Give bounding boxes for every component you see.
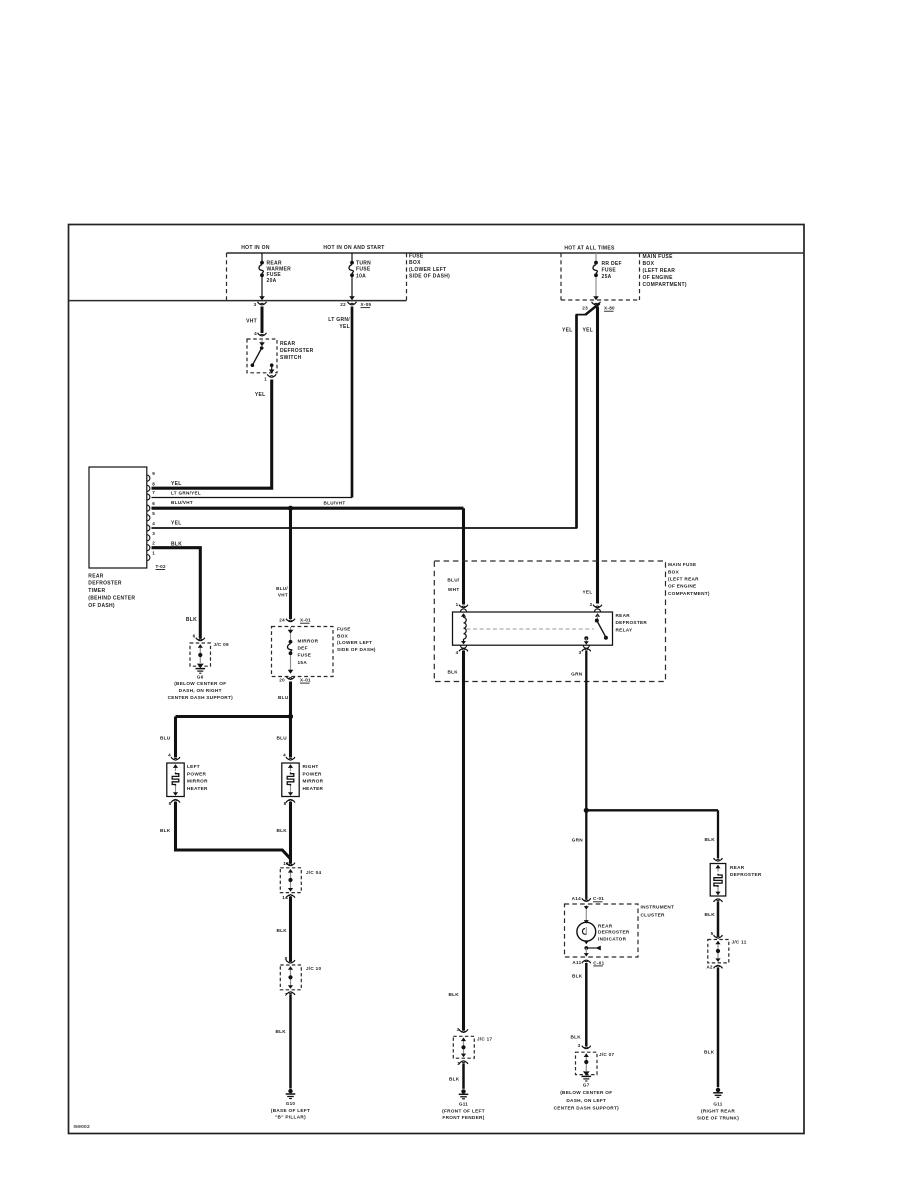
label BLU (below fuse 20) — [278, 695, 289, 700]
timer U1 name label — [88, 573, 135, 609]
svg-text:BOX: BOX — [337, 633, 349, 638]
svg-text:(LOWER LEFT: (LOWER LEFT — [409, 267, 446, 273]
wire BLU/WHT (junction to fuse 24) — [289, 508, 292, 619]
svg-text:22: 22 — [340, 302, 346, 307]
junction connector J/C 11 — [708, 940, 729, 963]
svg-text:X-80: X-80 — [604, 306, 615, 311]
svg-text:REAR: REAR — [730, 865, 745, 870]
heater H1 LEFT POWER MIRROR HEATER — [167, 763, 184, 797]
svg-text:5: 5 — [711, 931, 714, 936]
label J/C 11 — [732, 940, 747, 945]
svg-text:BLU/: BLU/ — [447, 578, 460, 583]
svg-text:OF DASH): OF DASH) — [88, 603, 115, 609]
svg-text:C-01: C-01 — [593, 960, 604, 965]
svg-text:MAIN FUSE: MAIN FUSE — [668, 562, 696, 567]
svg-text:BLU: BLU — [276, 736, 287, 741]
svg-text:I59002: I59002 — [74, 1124, 91, 1130]
label BLU/WHT (timer pin 6) — [171, 500, 193, 505]
svg-text:6: 6 — [193, 634, 196, 639]
heater H2 RIGHT POWER MIRROR HEATER — [282, 763, 299, 797]
connector pin 3 (fuse box output) — [254, 302, 267, 307]
svg-text:(RIGHT REAR: (RIGHT REAR — [701, 1109, 735, 1114]
hot bus bottom line — [69, 300, 407, 302]
svg-text:BLK: BLK — [275, 1029, 286, 1034]
svg-text:GRN: GRN — [571, 671, 583, 676]
svg-text:BLK: BLK — [171, 541, 182, 547]
connector J/C 17 pin 3 — [457, 1027, 468, 1032]
svg-text:C-01: C-01 — [593, 896, 604, 901]
connector relay pin 2 — [590, 602, 602, 608]
fuse F1 REAR WARMER FUSE 20A — [259, 253, 265, 300]
label BLU/WHT (above fuse 24) — [276, 586, 288, 598]
svg-text:REAR: REAR — [280, 341, 295, 347]
junction node BLU/WHT branch — [288, 506, 293, 511]
label BLK (above right G11) — [704, 1050, 715, 1055]
svg-text:CLUSTER: CLUSTER — [641, 912, 666, 917]
label J/C 09 — [214, 642, 229, 647]
connector J/C 09 pin 6 — [193, 634, 205, 641]
wire BLK (cluster to J/C 07) — [585, 963, 588, 1046]
wire YEL (connector 23 to timer pin 4) — [152, 303, 600, 528]
svg-text:(BELOW CENTER OF: (BELOW CENTER OF — [560, 1090, 612, 1095]
svg-text:BLK: BLK — [704, 837, 715, 842]
fuse box (lower) location text — [337, 627, 376, 652]
svg-text:G11: G11 — [459, 1102, 468, 1107]
connector switch pin 1 — [264, 374, 276, 381]
svg-text:SIDE OF DASH): SIDE OF DASH) — [337, 647, 376, 652]
connector relay pin 3 — [579, 648, 591, 655]
switch S1 REAR DEFROSTER SWITCH box — [247, 339, 277, 373]
ground G11 (left) label — [442, 1102, 485, 1120]
connector rear defroster bottom — [714, 899, 723, 902]
ground G7 label — [554, 1083, 620, 1111]
ground G10 symbol — [286, 1089, 296, 1099]
svg-text:HOT AT ALL TIMES: HOT AT ALL TIMES — [564, 246, 615, 252]
svg-text:8: 8 — [169, 801, 172, 806]
connector relay pin 4 — [456, 648, 468, 655]
heater H2 name label — [303, 764, 324, 791]
label GRN (below junction) — [572, 838, 584, 843]
fuse F1 value label — [267, 260, 292, 284]
svg-text:1: 1 — [456, 602, 459, 607]
svg-text:FUSE: FUSE — [409, 253, 424, 259]
svg-text:INSTRUMENT: INSTRUMENT — [641, 904, 675, 909]
svg-text:9: 9 — [152, 471, 155, 476]
svg-text:BLK: BLK — [160, 828, 171, 833]
wire BLU junction row — [176, 715, 291, 718]
label J/C 07 — [599, 1052, 614, 1057]
heater H1 name label — [187, 764, 208, 791]
junction connector J/C 07 — [576, 1052, 598, 1075]
connector switch pin 4 — [254, 331, 266, 336]
connector pin 23 X-80 — [582, 302, 615, 311]
svg-text:BLK: BLK — [186, 617, 197, 623]
svg-text:DEFROSTER: DEFROSTER — [730, 872, 762, 877]
svg-text:(LEFT REAR: (LEFT REAR — [643, 268, 676, 274]
svg-text:A11: A11 — [572, 960, 581, 965]
connector J/C 07 pin 3 — [578, 1043, 591, 1049]
connector cluster pin A11 C-01 — [572, 960, 604, 966]
svg-text:LT GRN/: LT GRN/ — [328, 317, 350, 323]
svg-text:HOT IN ON AND START: HOT IN ON AND START — [323, 245, 384, 251]
svg-text:"B" PILLAR): "B" PILLAR) — [275, 1115, 306, 1120]
svg-text:COMPARTMENT): COMPARTMENT) — [668, 591, 710, 596]
svg-text:COMPARTMENT): COMPARTMENT) — [643, 282, 687, 288]
wire BLU (right branch down) — [289, 717, 292, 758]
main fuse box location text — [643, 254, 687, 288]
connector J/C 04 pin 14 — [282, 895, 295, 900]
svg-text:OF ENGINE: OF ENGINE — [643, 275, 674, 281]
svg-text:YEL: YEL — [582, 590, 592, 595]
fuse F3 value label — [602, 261, 622, 280]
connector J/C 04 pin 13 — [283, 861, 295, 866]
label J/C 10 — [306, 966, 321, 971]
wire LT GRN/YEL (fuse 22 to timer pin 7) — [152, 307, 353, 498]
label BLK (timer pin 2) — [171, 541, 182, 547]
connector left heater pin 4 — [168, 753, 180, 761]
svg-text:DEFROSTER: DEFROSTER — [88, 581, 122, 587]
connector T-02 — [156, 564, 167, 570]
svg-text:BLK: BLK — [276, 828, 287, 833]
svg-text:CENTER DASH SUPPORT): CENTER DASH SUPPORT) — [554, 1105, 620, 1110]
svg-text:BLU/VHT: BLU/VHT — [324, 501, 346, 506]
junction connector J/C 09 — [190, 643, 211, 668]
svg-text:13: 13 — [283, 861, 289, 866]
svg-text:BLK: BLK — [447, 669, 458, 674]
label BLK (relay pin 4) — [447, 669, 458, 674]
connector rear defroster top — [714, 858, 723, 861]
wire BLK (left heater to join) — [176, 802, 291, 859]
ground G7 symbol — [582, 1076, 592, 1081]
svg-text:BLK: BLK — [704, 912, 715, 917]
label GRN (relay pin 3) — [571, 671, 583, 676]
svg-text:VHT: VHT — [278, 593, 288, 598]
svg-text:MIRROR: MIRROR — [298, 639, 319, 644]
svg-text:20: 20 — [279, 678, 285, 683]
svg-text:SWITCH: SWITCH — [280, 355, 302, 361]
svg-text:15A: 15A — [298, 660, 308, 665]
svg-text:8: 8 — [152, 481, 155, 486]
svg-text:FUSE: FUSE — [356, 267, 371, 273]
wire BLK (timer pin 2 to J/C 09) — [152, 548, 201, 639]
wire BLU (left branch down) — [174, 717, 177, 758]
svg-text:OF ENGINE: OF ENGINE — [668, 584, 696, 589]
svg-text:VHT: VHT — [246, 319, 257, 325]
rear defroster name label — [730, 865, 762, 877]
label YEL (relay pin 2) — [582, 590, 592, 595]
svg-text:REAR: REAR — [598, 923, 613, 928]
label BLU/WHT (mid) — [324, 501, 346, 506]
relay K1 REAR DEFROSTER RELAY box — [453, 609, 613, 648]
svg-text:DASH, ON LEFT: DASH, ON LEFT — [566, 1098, 606, 1103]
relay K1 name label — [616, 613, 648, 632]
connector cluster pin A14 C-01 — [572, 896, 605, 902]
svg-text:BOX: BOX — [643, 261, 655, 267]
svg-text:FUSE: FUSE — [337, 627, 351, 632]
svg-text:4: 4 — [254, 331, 257, 336]
svg-text:7: 7 — [285, 992, 288, 997]
connector right heater pin 8 — [284, 800, 295, 807]
lamp REAR DEFROSTER INDICATOR — [577, 905, 601, 957]
label HOT IN ON AND START — [323, 245, 384, 251]
svg-text:J/C 07: J/C 07 — [599, 1052, 614, 1057]
svg-text:4: 4 — [168, 753, 171, 758]
svg-text:BLK: BLK — [276, 928, 287, 933]
wire BLU/WHT (timer pin 6 to relay pin 1) — [152, 508, 464, 604]
svg-text:TURN: TURN — [356, 260, 371, 266]
svg-text:BLK: BLK — [704, 1050, 715, 1055]
svg-text:8: 8 — [285, 956, 288, 961]
svg-text:J/C 04: J/C 04 — [306, 870, 321, 875]
svg-text:BLK: BLK — [449, 1076, 460, 1081]
ground G6 label — [168, 674, 234, 699]
svg-text:G10: G10 — [286, 1101, 296, 1106]
wire BLU (fuse 20 to heater junction) — [289, 682, 292, 717]
svg-text:2: 2 — [590, 602, 593, 607]
svg-text:HEATER: HEATER — [303, 786, 324, 791]
label J/C 04 — [306, 870, 321, 875]
fuse F4 value label — [298, 639, 319, 665]
svg-text:T-02: T-02 — [156, 564, 167, 569]
svg-text:2: 2 — [152, 541, 155, 546]
svg-text:J/C 11: J/C 11 — [732, 940, 747, 945]
fuse box (dash) left dashed edge — [226, 253, 228, 301]
label YEL (left drop) — [562, 328, 573, 334]
svg-text:DASH, ON RIGHT: DASH, ON RIGHT — [179, 688, 222, 693]
resistor R1 REAR DEFROSTER — [710, 864, 726, 897]
svg-text:HOT IN ON: HOT IN ON — [241, 245, 270, 251]
connector relay pin 1 — [456, 602, 468, 608]
switch S1 internals — [251, 338, 275, 374]
main fuse box bottom dashed edge — [561, 299, 640, 301]
svg-text:YEL: YEL — [171, 520, 182, 526]
wire BLK (defroster to J/C 11) — [717, 901, 720, 936]
svg-text:3: 3 — [152, 531, 155, 536]
svg-text:BLU: BLU — [278, 695, 289, 700]
svg-text:(BEHIND CENTER: (BEHIND CENTER — [88, 596, 135, 602]
fuse F3 RR DEF FUSE 25A — [593, 253, 599, 300]
connector J/C 17 pin 1 — [457, 1061, 468, 1066]
fuse box (dash) right dashed edge / text separator — [406, 253, 408, 301]
svg-text:FUSE: FUSE — [602, 267, 617, 273]
svg-text:10A: 10A — [356, 273, 366, 279]
junction node GRN branch — [584, 808, 589, 813]
svg-text:1: 1 — [152, 551, 155, 556]
svg-text:YEL: YEL — [339, 324, 350, 330]
svg-text:4: 4 — [283, 753, 286, 758]
wire GRN branch to rear defroster — [586, 810, 718, 858]
fuse F2 TURN FUSE 10A — [349, 253, 355, 300]
label BLK (below defroster) — [704, 912, 715, 917]
svg-text:DEFROSTER: DEFROSTER — [616, 620, 648, 625]
junction connector J/C 10 — [280, 965, 301, 990]
switch S1 name label — [280, 341, 314, 361]
svg-text:BLK: BLK — [572, 974, 583, 979]
junction connector J/C 04 — [280, 868, 301, 893]
svg-text:SIDE OF DASH): SIDE OF DASH) — [409, 274, 450, 280]
main fuse box left dashed edge — [560, 253, 562, 300]
svg-text:1: 1 — [457, 1061, 460, 1066]
connector J/C 10 pin 8 — [285, 956, 295, 963]
svg-text:(BELOW CENTER OF: (BELOW CENTER OF — [174, 681, 226, 686]
label BLK (left) — [160, 828, 171, 833]
main fuse box (relay) location text — [668, 562, 710, 596]
svg-text:4: 4 — [456, 650, 459, 655]
label HOT IN ON — [241, 245, 270, 251]
svg-text:BLU/: BLU/ — [276, 586, 288, 591]
svg-text:(LOWER LEFT: (LOWER LEFT — [337, 640, 372, 645]
svg-text:HEATER: HEATER — [187, 786, 208, 791]
svg-text:7: 7 — [152, 490, 155, 495]
relay K1 switch contact — [584, 613, 608, 644]
svg-text:WHT: WHT — [448, 587, 460, 592]
label BLK (between J/C) — [276, 928, 287, 933]
svg-text:A14: A14 — [572, 896, 581, 901]
relay K1 coil — [461, 613, 466, 644]
diagram outer border frame — [69, 225, 805, 1134]
svg-text:RIGHT: RIGHT — [303, 764, 319, 769]
wire BLK (J/C 17 to G11) — [462, 1063, 465, 1089]
timer U1 pin numbers — [152, 471, 155, 555]
svg-text:DEFROSTER: DEFROSTER — [598, 930, 630, 935]
svg-text:CENTER DASH SUPPORT): CENTER DASH SUPPORT) — [168, 695, 234, 700]
relay K1 coil-contact link — [467, 628, 595, 630]
svg-text:REAR: REAR — [616, 613, 631, 618]
svg-text:8: 8 — [284, 801, 287, 806]
junction connector J/C 17 — [453, 1036, 474, 1058]
main fuse box (relay) dashed outline — [434, 561, 665, 682]
ground G11 (left) symbol — [459, 1089, 469, 1099]
label BLK (above G10) — [275, 1029, 286, 1034]
svg-text:6: 6 — [152, 501, 155, 506]
svg-text:3: 3 — [457, 1027, 460, 1032]
svg-text:14: 14 — [282, 895, 288, 900]
label YEL (switch output) — [255, 392, 266, 398]
ground G11 (right) label — [697, 1102, 739, 1121]
svg-text:MAIN FUSE: MAIN FUSE — [643, 254, 674, 260]
svg-text:BLU: BLU — [160, 736, 171, 741]
svg-text:GRN: GRN — [572, 838, 584, 843]
svg-text:LT GRN/YEL: LT GRN/YEL — [171, 491, 201, 496]
connector right heater pin 4 — [283, 753, 295, 761]
svg-text:YEL: YEL — [255, 392, 266, 398]
label LT GRN/YEL (timer pin 7) — [171, 491, 201, 496]
ground G6 symbol — [196, 669, 206, 674]
svg-text:3: 3 — [578, 1043, 581, 1048]
svg-text:BOX: BOX — [668, 569, 680, 574]
fuse F4 MIRROR DEF FUSE 15A — [288, 627, 294, 674]
label YEL (right drop) — [583, 328, 594, 334]
ground G10 label — [271, 1101, 310, 1120]
svg-text:G11: G11 — [713, 1102, 722, 1107]
junction node BLU — [288, 714, 293, 719]
lamp name label — [598, 923, 630, 941]
instrument cluster dashed box — [565, 904, 639, 957]
svg-text:23: 23 — [582, 306, 588, 311]
connector left heater pin 8 — [169, 800, 180, 807]
wire YEL (switch pin 1 to timer pin 8) — [152, 380, 272, 489]
fuse box location text — [409, 253, 450, 279]
svg-text:DEF: DEF — [298, 646, 308, 651]
connector J/C 11 pin A2 — [706, 964, 722, 969]
ground G11 (right) symbol — [713, 1088, 723, 1098]
svg-text:FUSE: FUSE — [298, 653, 312, 658]
svg-text:FRONT FENDER): FRONT FENDER) — [442, 1115, 484, 1120]
svg-text:3: 3 — [254, 302, 257, 307]
svg-text:BLK: BLK — [570, 1035, 581, 1040]
hot bus top line — [227, 252, 805, 254]
wire BLK (J/C 04 to J/C 10) — [289, 897, 292, 961]
instrument cluster name label — [641, 904, 675, 917]
wire BLK (J/C 10 to ground G10) — [289, 994, 292, 1088]
label HOT AT ALL TIMES — [564, 246, 615, 252]
svg-text:20A: 20A — [267, 278, 277, 284]
svg-text:1: 1 — [264, 377, 267, 382]
label YEL (timer pin 4) — [171, 520, 182, 526]
svg-text:POWER: POWER — [303, 771, 323, 776]
svg-text:X-05: X-05 — [361, 302, 372, 307]
main fuse box right dashed edge / text separator — [639, 253, 641, 300]
svg-text:YEL: YEL — [562, 328, 573, 334]
label BLK (below cluster) — [572, 974, 583, 979]
label BLU (left heater) — [160, 736, 171, 741]
svg-text:G6: G6 — [197, 674, 204, 679]
svg-text:YEL: YEL — [171, 481, 182, 487]
svg-text:(FRONT OF LEFT: (FRONT OF LEFT — [442, 1108, 485, 1113]
svg-text:YEL: YEL — [583, 328, 594, 334]
label J/C 17 — [477, 1037, 492, 1042]
svg-text:3: 3 — [579, 650, 582, 655]
svg-text:24: 24 — [279, 618, 285, 623]
svg-text:5: 5 — [152, 511, 155, 516]
svg-text:DEFROSTER: DEFROSTER — [280, 348, 314, 354]
label BLK (above rear defroster) — [704, 837, 715, 842]
svg-text:J/C 10: J/C 10 — [306, 966, 321, 971]
svg-text:G7: G7 — [583, 1083, 590, 1088]
label BLK (above J/C 09) — [186, 617, 197, 623]
label LT GRN/YEL (at fuse) — [328, 317, 350, 330]
wire YEL (connector 23 to relay pin 2) — [596, 307, 599, 604]
svg-text:(LEFT REAR: (LEFT REAR — [668, 577, 699, 582]
label BLU/WHT (relay pin 1) — [447, 578, 460, 592]
wire BLK (right heater down to J/C 04) — [289, 802, 292, 864]
svg-text:J/C 09: J/C 09 — [214, 642, 229, 647]
svg-text:(BASE OF LEFT: (BASE OF LEFT — [271, 1108, 310, 1113]
label BLU (right heater) — [276, 736, 287, 741]
svg-text:MIRROR: MIRROR — [187, 779, 208, 784]
svg-text:BLK: BLK — [448, 992, 459, 997]
svg-text:BLU/VHT: BLU/VHT — [171, 500, 193, 505]
svg-text:BOX: BOX — [409, 260, 421, 266]
wire BLK (J/C 11 to right G11) — [717, 968, 720, 1088]
svg-text:25A: 25A — [602, 274, 612, 280]
svg-text:A2: A2 — [706, 964, 713, 969]
svg-text:INDICATOR: INDICATOR — [598, 936, 627, 941]
svg-text:J/C 17: J/C 17 — [477, 1037, 492, 1042]
svg-text:LEFT: LEFT — [187, 764, 200, 769]
svg-text:X-01: X-01 — [300, 618, 311, 623]
svg-text:TIMER: TIMER — [88, 588, 105, 594]
fuse box (mirror def) dashed box — [272, 627, 334, 677]
wire GRN (relay pin 3 to cluster A14) — [585, 651, 587, 899]
fuse F2 value label — [356, 260, 371, 279]
connector pin 24 X-01 — [279, 618, 311, 624]
label WHT — [246, 319, 257, 325]
timer U1 REAR DEFROSTER TIMER box — [89, 467, 150, 568]
connector J/C 11 pin 5 — [711, 931, 723, 938]
wire BLK (relay pin 4 to J/C 17) — [462, 651, 465, 1030]
svg-text:RELAY: RELAY — [616, 627, 634, 632]
